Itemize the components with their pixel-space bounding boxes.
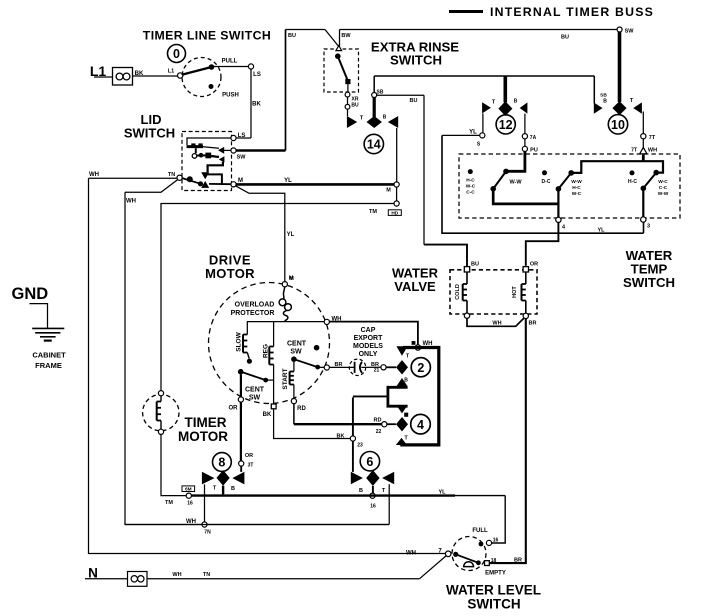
- node WH (contact 2): [415, 345, 420, 350]
- lid switch pole stem: [195, 148, 197, 153]
- wire diagonal to node 7: [420, 556, 446, 579]
- wire tap to BK drop: [353, 395, 388, 397]
- temp switch terminal 7T/WH: [642, 139, 644, 148]
- svg-text:T: T: [406, 354, 410, 360]
- wire timer motor feed: [161, 204, 394, 391]
- node 7: [445, 551, 451, 557]
- svg-text:OR: OR: [229, 406, 239, 412]
- lid switch internal jog: [208, 162, 223, 173]
- node LS (lid): [231, 135, 236, 140]
- svg-text:W-C: W-C: [466, 184, 476, 190]
- timer line switch dashed circle: [182, 58, 221, 97]
- node cold out: [464, 313, 469, 318]
- timer line switch blade: [183, 67, 212, 75]
- svg-text:CENT: CENT: [245, 387, 265, 394]
- svg-text:BU: BU: [351, 103, 359, 109]
- node RD (motor): [291, 399, 296, 404]
- svg-text:PROTECTOR: PROTECTOR: [231, 310, 275, 317]
- node 16 (contact 6): [370, 493, 375, 498]
- svg-text:W-C: W-C: [658, 179, 668, 185]
- svg-text:YL: YL: [287, 232, 295, 238]
- svg-text:12: 12: [499, 118, 513, 132]
- node 3: [641, 217, 646, 222]
- node SW (timer): [617, 27, 622, 32]
- wire WH from TN (upper): [89, 177, 178, 179]
- svg-text:FRAME: FRAME: [35, 361, 62, 370]
- svg-text:CAP: CAP: [361, 327, 376, 334]
- lid switch arrow up: [201, 181, 209, 188]
- B jog bracket contacts 2/4: [387, 386, 408, 389]
- node XR: [347, 84, 349, 92]
- temp switch section 3: open dot H-C: [630, 170, 635, 175]
- svg-text:CENT: CENT: [287, 341, 307, 348]
- section 1 output to terminal 4: [493, 189, 558, 204]
- svg-text:S: S: [477, 142, 481, 148]
- lid switch TN blade: [182, 178, 201, 184]
- svg-text:TN: TN: [168, 172, 175, 178]
- node M junction: [394, 182, 399, 187]
- svg-text:BK: BK: [337, 434, 345, 440]
- wire BU to water valve feed: [377, 94, 424, 96]
- cam number 4: [411, 414, 431, 434]
- contact 12 diamond: [498, 101, 512, 116]
- contact 4 diamond: [396, 417, 408, 431]
- timer motor coil: [160, 396, 162, 402]
- svg-text:EXPORT: EXPORT: [354, 335, 384, 342]
- svg-text:B: B: [383, 115, 387, 121]
- buss YL M wire (thick): [236, 183, 394, 186]
- node FULL 16: [486, 540, 491, 545]
- section 3 to terminal 3: [642, 188, 644, 217]
- svg-text:0: 0: [173, 47, 180, 61]
- lid switch arrow down: [201, 172, 209, 179]
- timer buss to cams 14/12/10: [374, 75, 594, 77]
- svg-text:WH: WH: [126, 199, 136, 205]
- contact 10 T triangle: [633, 102, 642, 113]
- svg-text:GND: GND: [12, 285, 49, 303]
- contact 14 stem: [373, 98, 376, 118]
- svg-text:EMPTY: EMPTY: [485, 571, 506, 577]
- svg-text:SLOW: SLOW: [236, 331, 243, 351]
- section 1 blade: [503, 169, 509, 175]
- contact 8 diamond: [217, 470, 230, 486]
- boxed label HD: [388, 210, 401, 216]
- wire L1 to connector: [94, 76, 113, 78]
- contact 14: node SB: [372, 93, 377, 98]
- pressure dome: [464, 562, 474, 567]
- contact 4 B triangle: [396, 405, 407, 413]
- wire SW to riser: [236, 149, 286, 152]
- svg-text:T: T: [360, 116, 364, 122]
- wire BK down from LS: [250, 69, 252, 138]
- node EMPTY 18 (square): [485, 561, 490, 566]
- svg-text:BU: BU: [561, 35, 569, 41]
- temp switch section 2: open dot D-C: [542, 170, 547, 175]
- wire WH TN neutral: [147, 578, 420, 580]
- node M (motor): [282, 282, 287, 287]
- svg-text:6: 6: [366, 455, 373, 469]
- cam number 8: [213, 453, 232, 472]
- extra rinse switch box: [324, 49, 359, 92]
- svg-text:H-C: H-C: [466, 178, 475, 184]
- svg-text:WH: WH: [406, 551, 416, 557]
- extra rinse blade: [335, 53, 341, 59]
- svg-text:COLD: COLD: [455, 284, 461, 300]
- svg-text:22: 22: [376, 429, 382, 435]
- section 2 jog to WH bus: [571, 161, 663, 173]
- WH stem into box: [642, 154, 645, 161]
- svg-text:SB: SB: [377, 90, 384, 96]
- svg-text:M: M: [289, 276, 294, 282]
- svg-text:W-W: W-W: [658, 191, 669, 197]
- svg-text:FULL: FULL: [472, 528, 488, 534]
- ground symbol cabinet frame: [30, 304, 48, 328]
- svg-text:21: 21: [374, 368, 380, 374]
- cent switch lower: [238, 369, 244, 375]
- terminal BU (square): [464, 267, 469, 272]
- contact 14 diamond: [367, 116, 382, 128]
- contact 6 T triangle: [382, 472, 394, 484]
- node BR: [523, 313, 528, 318]
- N neutral wire: [85, 578, 128, 580]
- node 7T: [642, 112, 644, 134]
- svg-text:W-W: W-W: [509, 180, 522, 186]
- cam number 14: [364, 134, 383, 153]
- node PU: [524, 139, 526, 147]
- node BU: [347, 97, 349, 104]
- svg-text:16: 16: [370, 504, 376, 510]
- svg-text:SW: SW: [237, 155, 247, 161]
- push contact dot: [209, 84, 214, 89]
- contact 10 diamond: [612, 101, 626, 115]
- contact 12 stem (thick buss): [503, 76, 507, 102]
- svg-text:4: 4: [417, 418, 424, 432]
- svg-text:BR: BR: [514, 558, 522, 564]
- lid switch middle blade: [199, 153, 204, 158]
- wire WH motor to contact 2: [329, 322, 418, 345]
- wire BW into extra rinse: [325, 30, 339, 47]
- motor top bus: [247, 321, 324, 323]
- svg-text:BK: BK: [263, 412, 272, 418]
- svg-text:BU: BU: [410, 98, 418, 104]
- wire into contact 14 T: [347, 109, 349, 116]
- svg-text:MOTOR: MOTOR: [178, 429, 228, 444]
- svg-text:TM: TM: [369, 209, 377, 215]
- contact 8 T triangle: [202, 472, 215, 485]
- svg-text:T: T: [213, 486, 217, 492]
- wire BR down to water level switch: [489, 319, 525, 563]
- svg-text:18: 18: [491, 558, 497, 564]
- svg-text:WH: WH: [172, 572, 181, 578]
- wire BU feed to valve: [424, 245, 467, 267]
- wire YL from contact 12 to temp switch: [442, 134, 480, 136]
- contact 8 B triangle: [232, 472, 244, 485]
- svg-text:WH: WH: [492, 321, 501, 327]
- svg-text:B: B: [231, 486, 235, 492]
- svg-text:TM: TM: [165, 500, 173, 506]
- node 4: [556, 217, 561, 222]
- svg-text:PULL: PULL: [222, 59, 238, 65]
- WH line 7N to contact 6: [125, 524, 389, 526]
- svg-text:W-W: W-W: [571, 179, 582, 185]
- contact 10 B triangle: [594, 103, 603, 114]
- lid switch arrow to SW: [218, 147, 224, 154]
- svg-text:PU: PU: [530, 148, 538, 154]
- svg-text:W-C: W-C: [572, 191, 582, 197]
- legend: internal timer buss line: [449, 10, 483, 13]
- svg-text:YL: YL: [469, 130, 477, 136]
- contact 2 B triangle: [396, 378, 407, 386]
- svg-text:BW: BW: [341, 33, 351, 39]
- svg-text:L1: L1: [168, 69, 174, 75]
- wire buss down to water level FULL: [492, 496, 505, 543]
- node SW: [231, 148, 236, 153]
- timer motor dashed circle: [143, 394, 179, 430]
- water valve dashed box: [450, 270, 537, 314]
- svg-text:6M: 6M: [185, 487, 192, 493]
- wire WH second drop: [125, 192, 389, 524]
- temp switch section 1: PU stem: [508, 152, 525, 172]
- lid switch dashed box: [182, 132, 232, 191]
- svg-text:C-C: C-C: [659, 185, 668, 191]
- coil COLD: [466, 272, 468, 284]
- section 1 open contact dot: [468, 169, 473, 174]
- svg-text:T: T: [630, 98, 634, 104]
- contact 14 B triangle: [388, 116, 398, 128]
- connector CO (line): [113, 68, 133, 86]
- wire contact 8 T down to 7N: [204, 484, 206, 522]
- cam number 12: [496, 115, 515, 134]
- svg-text:2: 2: [417, 361, 424, 375]
- contact 6 stem to buss: [372, 486, 374, 493]
- svg-text:REG: REG: [263, 344, 270, 358]
- svg-text:INTERNAL TIMER BUSS: INTERNAL TIMER BUSS: [490, 5, 654, 19]
- svg-text:7T: 7T: [631, 148, 637, 154]
- svg-text:14: 14: [367, 138, 381, 152]
- node TM: [186, 493, 191, 498]
- svg-text:ONLY: ONLY: [359, 351, 378, 358]
- svg-text:H-C: H-C: [572, 185, 581, 191]
- svg-text:OR: OR: [530, 262, 538, 268]
- winding SLOW: [246, 322, 248, 335]
- water level switch dashed circle: [452, 537, 486, 571]
- svg-text:16: 16: [187, 501, 193, 507]
- svg-text:YL: YL: [284, 178, 292, 184]
- svg-text:7T: 7T: [649, 135, 656, 141]
- wire WH diagonal from TN: [125, 180, 178, 193]
- node WH/BR (cap tap): [324, 365, 329, 370]
- svg-text:CABINET: CABINET: [32, 351, 66, 360]
- svg-text:WH: WH: [89, 172, 99, 178]
- svg-text:MODELS: MODELS: [353, 343, 383, 350]
- cam number 2: [411, 358, 430, 377]
- svg-text:HOT: HOT: [512, 286, 518, 298]
- svg-text:RD: RD: [374, 418, 382, 424]
- wire WH jog valve: [467, 318, 524, 326]
- svg-text:8: 8: [218, 456, 225, 470]
- svg-text:OVERLOAD: OVERLOAD: [235, 302, 275, 309]
- thick YL buss bottom: [191, 494, 455, 496]
- svg-text:VALVE: VALVE: [394, 279, 436, 294]
- wire BK to contact 6: [274, 409, 351, 439]
- winding REG: [273, 322, 275, 347]
- wire terminal 4 to OR valve: [526, 223, 559, 266]
- top buss BU: [286, 29, 326, 31]
- svg-text:HD: HD: [391, 211, 398, 217]
- cam number 10: [608, 115, 627, 134]
- svg-text:RD: RD: [297, 406, 306, 412]
- svg-text:SWITCH: SWITCH: [124, 126, 175, 141]
- svg-text:SW: SW: [290, 349, 302, 356]
- contact 12 B triangle: [520, 102, 528, 113]
- svg-text:D-C: D-C: [542, 179, 551, 185]
- svg-text:B: B: [359, 488, 363, 494]
- svg-text:YL: YL: [438, 490, 446, 496]
- contact 6 B triangle: [351, 472, 363, 484]
- lid switch contact bar: [187, 145, 204, 148]
- wire M to drive motor: [236, 186, 285, 282]
- svg-text:SW: SW: [625, 29, 635, 35]
- svg-text:BU: BU: [471, 262, 479, 268]
- node YL (contact 12): [482, 113, 484, 132]
- node TN: [177, 175, 182, 180]
- cam number 0: [168, 45, 186, 63]
- wire OR to contact 8: [240, 402, 242, 461]
- boxed label at TM: [182, 486, 195, 492]
- node BK (motor, square): [271, 404, 276, 409]
- contact 2 T triangle: [396, 346, 407, 356]
- svg-text:3T: 3T: [248, 463, 254, 469]
- svg-text:START: START: [282, 368, 289, 389]
- contact 12 T triangle: [482, 102, 491, 113]
- contact 6 diamond: [366, 470, 379, 486]
- svg-text:SW: SW: [249, 395, 261, 402]
- svg-text:B: B: [514, 99, 518, 105]
- svg-text:YL: YL: [597, 228, 605, 234]
- timer motor bottom node: [158, 429, 163, 434]
- svg-text:TIMER LINE SWITCH: TIMER LINE SWITCH: [143, 29, 271, 43]
- svg-text:SWITCH: SWITCH: [623, 275, 675, 290]
- svg-text:PUSH: PUSH: [222, 93, 239, 99]
- node WH (motor): [324, 319, 329, 324]
- wire into lid switch LS: [236, 137, 251, 139]
- node OR (motor): [240, 375, 242, 397]
- svg-text:BR: BR: [529, 321, 537, 327]
- svg-text:SWITCH: SWITCH: [390, 53, 442, 68]
- section 2 blade: [568, 170, 574, 176]
- thick T buss around contacts 2/4: [400, 348, 439, 445]
- extra rinse terminal: [336, 46, 342, 51]
- node M: [231, 182, 236, 187]
- water temp switch dashed box: [459, 154, 680, 218]
- svg-text:4: 4: [562, 225, 566, 231]
- section 3 blade: [653, 170, 659, 176]
- cam number 6: [360, 452, 379, 471]
- terminal OR (square): [523, 267, 528, 272]
- timer motor top node: [158, 391, 163, 396]
- contact 10 stem (thick buss from SW): [618, 32, 622, 102]
- wire to LS: [212, 66, 249, 68]
- winding START: [293, 362, 295, 372]
- svg-text:7N: 7N: [204, 530, 211, 536]
- lid switch internal wire from LS: [187, 138, 231, 145]
- svg-text:T: T: [492, 100, 496, 106]
- wire RD to contact 4: [293, 404, 295, 425]
- wire contact 6 T down to WH line: [388, 484, 390, 524]
- svg-text:H-C: H-C: [628, 179, 637, 185]
- svg-text:16: 16: [493, 538, 499, 544]
- svg-text:T: T: [404, 436, 408, 442]
- svg-text:LS: LS: [238, 133, 246, 139]
- svg-text:WH: WH: [648, 148, 657, 154]
- svg-text:B: B: [603, 99, 607, 105]
- svg-text:7A: 7A: [530, 135, 537, 141]
- svg-text:3: 3: [647, 224, 650, 230]
- svg-text:BU: BU: [288, 33, 296, 39]
- svg-text:TN: TN: [203, 572, 210, 578]
- drive motor dashed circle: [209, 283, 330, 404]
- lid switch arrow 2: [219, 156, 225, 162]
- node 7A: [524, 114, 526, 134]
- svg-text:BK: BK: [135, 71, 144, 77]
- svg-text:B: B: [404, 378, 408, 384]
- svg-text:BK: BK: [252, 102, 261, 108]
- svg-text:23: 23: [357, 443, 363, 449]
- svg-text:TIMER: TIMER: [185, 415, 227, 430]
- node 21: [381, 365, 386, 370]
- node LS: [248, 64, 253, 69]
- svg-text:M: M: [386, 188, 391, 194]
- wire contact 14 B down to M node: [396, 128, 398, 182]
- contact 14 T triangle: [347, 116, 357, 128]
- connector CO (neutral): [128, 572, 148, 587]
- lid switch wire to M: [209, 183, 231, 185]
- node TM junction: [396, 187, 398, 201]
- contact 8 stem to buss: [222, 486, 224, 495]
- section 2 to terminal 4: [557, 189, 559, 217]
- coil HOT: [525, 272, 527, 284]
- wire BU left riser: [285, 30, 287, 151]
- svg-text:10: 10: [611, 118, 625, 132]
- wire timer motor to TM node: [161, 434, 186, 495]
- node 7N: [202, 522, 207, 527]
- svg-text:T: T: [382, 488, 386, 494]
- water level blade: [453, 552, 458, 557]
- svg-text:WATER LEVEL: WATER LEVEL: [446, 583, 541, 598]
- svg-text:OR: OR: [245, 453, 253, 459]
- svg-text:C-C: C-C: [466, 190, 475, 196]
- svg-text:MOTOR: MOTOR: [205, 266, 255, 281]
- svg-text:SWITCH: SWITCH: [467, 597, 520, 612]
- wire WH left drop: [89, 178, 446, 553]
- wire BK: [133, 75, 178, 77]
- contact 2 diamond: [396, 360, 408, 374]
- svg-text:LS: LS: [253, 72, 261, 78]
